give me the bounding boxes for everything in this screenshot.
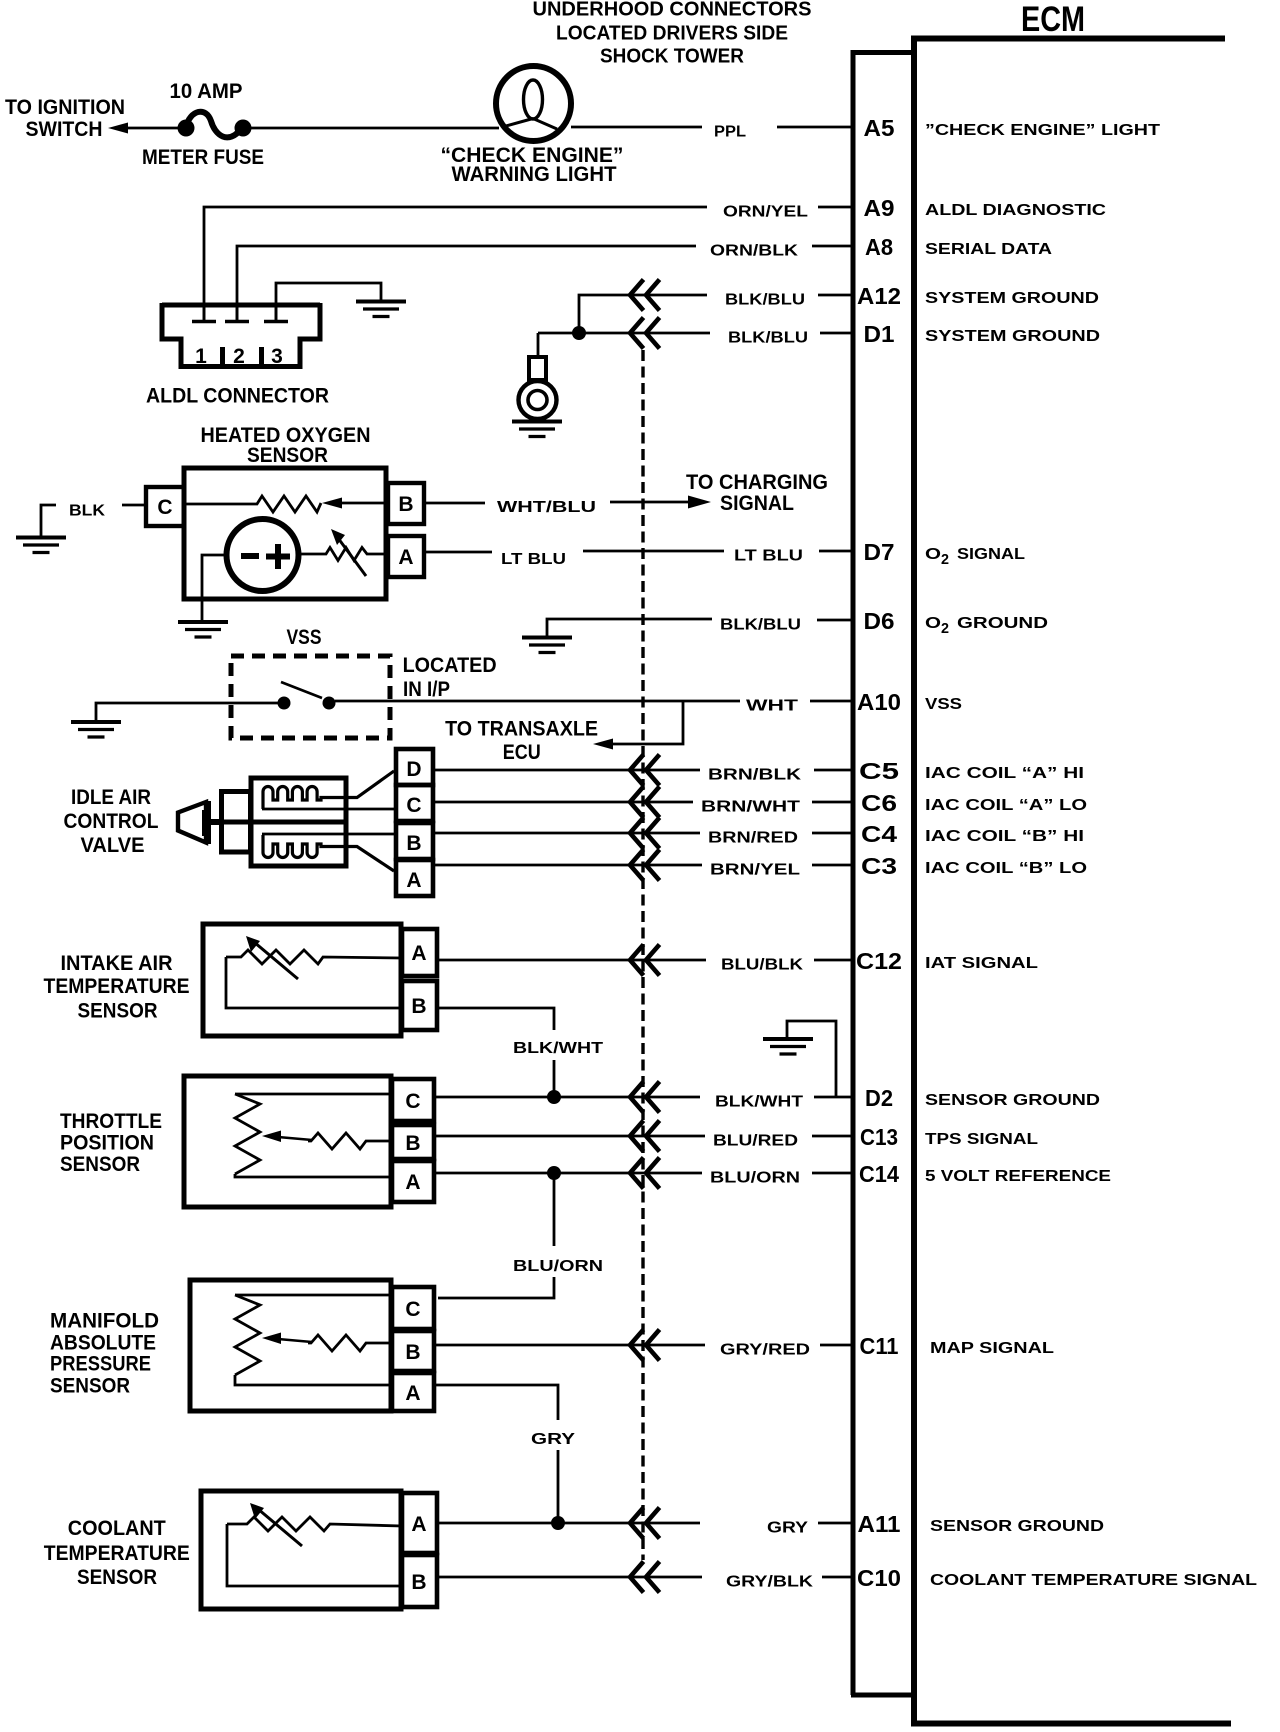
wire: HO2S pin A (LT BLU) left segment <box>424 551 492 554</box>
ECM box outline <box>911 36 1231 1724</box>
IAC pin C box <box>396 785 433 821</box>
heater resistor inside HO2S <box>184 496 321 512</box>
wire with arrow to charging signal <box>610 496 711 509</box>
svg-text:SHOCK TOWER: SHOCK TOWER <box>600 46 745 68</box>
svg-text:BRN/BLK: BRN/BLK <box>708 767 802 784</box>
connector chevrons on BLU/ORN wire at boundary <box>630 1158 660 1189</box>
svg-text:COOLANT TEMPERATURE SIGNAL: COOLANT TEMPERATURE SIGNAL <box>930 1572 1257 1589</box>
IAC coil B winding <box>263 835 394 871</box>
svg-text:TO CHARGING: TO CHARGING <box>686 471 828 494</box>
svg-text:2: 2 <box>941 620 949 637</box>
wire stub to pin D1 <box>820 332 852 335</box>
wire: warning light to pin A5 (PPL) <box>571 126 702 129</box>
caption: coolant temperature sensor <box>44 1517 190 1589</box>
battery symbol (sensor cell) <box>227 519 299 591</box>
svg-text:LT BLU: LT BLU <box>734 548 803 565</box>
svg-text:ORN/BLK: ORN/BLK <box>710 243 799 260</box>
wire: VSS to A10 (WHT) <box>335 700 740 703</box>
svg-text:VALVE: VALVE <box>81 834 145 857</box>
svg-text:A12: A12 <box>857 283 901 309</box>
wire: ground to VSS switch <box>96 703 278 721</box>
VSS switch contacts <box>278 697 291 710</box>
ground: HO2S case <box>178 622 228 637</box>
svg-text:LT BLU: LT BLU <box>501 551 566 568</box>
wire: IAC coil B hi to pin B <box>262 833 396 836</box>
svg-text:COOLANT: COOLANT <box>68 1517 166 1540</box>
svg-text:WHT/BLU: WHT/BLU <box>497 499 596 516</box>
svg-text:ALDL DIAGNOSTIC: ALDL DIAGNOSTIC <box>925 202 1107 219</box>
svg-text:SENSOR: SENSOR <box>77 1566 157 1589</box>
connector chevrons on BLK/BLU wire at boundary <box>630 318 660 349</box>
caption: underhood connectors note <box>533 0 812 68</box>
junction: A12/D1 ground splice <box>572 326 586 340</box>
IAC pin D box <box>396 749 433 785</box>
wire: pot bottom to pin A <box>235 1174 392 1177</box>
wire stub to pin D2 <box>814 1096 852 1099</box>
svg-text:IN I/P: IN I/P <box>403 678 450 701</box>
svg-text:MAP SIGNAL: MAP SIGNAL <box>930 1340 1054 1357</box>
CTS pin A box <box>402 1493 437 1553</box>
connector chevrons on BLK/BLU wire at boundary <box>630 280 660 311</box>
heated oxygen sensor body <box>184 468 386 599</box>
svg-text:SENSOR: SENSOR <box>247 444 328 467</box>
svg-text:TO TRANSAXLE: TO TRANSAXLE <box>445 718 598 741</box>
svg-text:A9: A9 <box>864 195 895 221</box>
svg-text:ECU: ECU <box>503 741 541 764</box>
IAC pin A box <box>396 860 433 896</box>
fuse F1 METER FUSE <box>178 112 252 138</box>
wire stub to pin D6 <box>817 619 852 622</box>
svg-text:B: B <box>405 1341 420 1364</box>
svg-text:BLK/BLU: BLK/BLU <box>728 330 808 347</box>
wire stub to pin C14 <box>812 1172 852 1175</box>
svg-text:B: B <box>406 832 421 855</box>
TPS pin A box <box>392 1161 434 1202</box>
svg-text:GRY: GRY <box>767 1520 808 1537</box>
svg-text:IAC COIL “A” LO: IAC COIL “A” LO <box>925 797 1087 814</box>
IAT pin B box <box>402 981 437 1030</box>
wire: IAC B to C4 (BRN/RED) <box>433 832 700 835</box>
wire BLK from pin C <box>122 504 146 507</box>
ring terminal ground lug <box>519 357 557 419</box>
wire: IAC A to C3 (BRN/YEL) <box>433 864 702 867</box>
svg-text:O: O <box>925 546 941 563</box>
svg-text:BLU/BLK: BLU/BLK <box>721 957 804 974</box>
caption: idle air control valve <box>64 786 159 857</box>
svg-text:C4: C4 <box>861 821 897 847</box>
svg-text:D7: D7 <box>864 539 895 565</box>
junction: 5V reference splice on C14 wire <box>547 1166 561 1180</box>
svg-text:D1: D1 <box>864 321 895 347</box>
wire: pot top to pin C <box>235 1093 392 1096</box>
wire stub to pin C5 <box>814 769 852 772</box>
svg-text:ORN/YEL: ORN/YEL <box>723 204 808 221</box>
svg-text:PRESSURE: PRESSURE <box>50 1353 151 1376</box>
wire: IAC coil A hi to pin D <box>262 808 396 811</box>
CTS thermistor arrow <box>250 1503 302 1546</box>
svg-text:BLK/WHT: BLK/WHT <box>513 1040 603 1057</box>
wire: A12 system ground (BLK/BLU) <box>579 295 707 333</box>
svg-text:A: A <box>411 1513 426 1536</box>
svg-text:SENSOR: SENSOR <box>78 1000 158 1023</box>
svg-text:D6: D6 <box>864 608 895 634</box>
lamp: CHECK ENGINE warning light <box>496 66 571 141</box>
MAP pin C box <box>392 1287 434 1329</box>
svg-text:SENSOR: SENSOR <box>60 1153 140 1176</box>
svg-text:METER FUSE: METER FUSE <box>142 146 264 169</box>
variable resistor to pin A <box>299 548 388 561</box>
svg-text:GRY: GRY <box>531 1431 575 1448</box>
ground: ALDL <box>356 302 406 317</box>
wire: CTS A to A11 (GRY) <box>437 1522 700 1525</box>
svg-text:BLK: BLK <box>69 503 105 520</box>
svg-text:VSS: VSS <box>925 696 962 713</box>
svg-text:B: B <box>411 995 426 1018</box>
svg-text:SWITCH: SWITCH <box>26 118 103 141</box>
svg-text:THROTTLE: THROTTLE <box>60 1110 162 1133</box>
ALDL pin 1 terminal <box>192 307 216 322</box>
svg-text:1: 1 <box>195 345 207 368</box>
connector chevrons on GRY/RED wire at boundary <box>630 1330 660 1361</box>
CTS pin B box <box>402 1555 437 1607</box>
wire stub to pin C10 <box>822 1576 852 1579</box>
svg-text:TEMPERATURE: TEMPERATURE <box>44 1542 190 1565</box>
coolant temperature sensor body <box>201 1491 401 1609</box>
wire branch to transaxle ECU <box>609 701 683 744</box>
HO2S pin A box <box>388 536 424 577</box>
wire: BLK to ground <box>41 505 56 536</box>
wire stub to pin C3 <box>812 864 852 867</box>
svg-text:BLU/RED: BLU/RED <box>713 1133 798 1150</box>
svg-text:IAT SIGNAL: IAT SIGNAL <box>925 955 1038 972</box>
arrow on heater wire <box>322 498 342 509</box>
svg-text:C12: C12 <box>856 948 902 974</box>
svg-text:LOCATED: LOCATED <box>403 654 497 677</box>
dashed line: underhood connector boundary <box>641 350 644 1560</box>
MAP sensor body <box>190 1280 391 1411</box>
connector chevrons on BRN/BLK wire at boundary <box>630 755 660 786</box>
MAP pin A box <box>392 1373 434 1411</box>
wire: branch down to A11 splice <box>557 1450 560 1521</box>
svg-text:TEMPERATURE: TEMPERATURE <box>44 975 190 998</box>
MAP potentiometer resistor <box>235 1295 260 1375</box>
caption: TO IGNITION SWITCH <box>5 96 125 141</box>
wire: branch to MAP pin C <box>438 1277 554 1298</box>
wire: ALDL pin 1 to A9 (ORN/YEL) <box>204 207 707 320</box>
svg-text:BLK/BLU: BLK/BLU <box>725 292 805 309</box>
svg-text:WARNING LIGHT: WARNING LIGHT <box>452 163 617 186</box>
svg-text:BRN/WHT: BRN/WHT <box>701 799 800 816</box>
svg-text:C: C <box>405 1298 420 1321</box>
ALDL connector outline <box>162 303 320 367</box>
wire stub to pin D7 <box>819 550 852 553</box>
MAP wiper resistor and arrow <box>262 1333 392 1352</box>
wire: MAP pot bottom to pin A <box>235 1375 392 1385</box>
svg-text:UNDERHOOD CONNECTORS: UNDERHOOD CONNECTORS <box>533 0 812 21</box>
svg-text:A10: A10 <box>857 689 901 715</box>
HO2S pin B box <box>388 483 424 524</box>
IAC coil A winding <box>263 771 394 809</box>
ECM connector pin column <box>851 53 914 1696</box>
connector chevrons on GRY wire at boundary <box>630 1508 660 1539</box>
connector chevrons on GRY/BLK wire at boundary <box>630 1562 660 1593</box>
wire stub to pin A11 <box>818 1522 852 1525</box>
CTS thermistor <box>227 1517 402 1531</box>
arrow to transaxle ECU <box>593 739 613 750</box>
svg-text:C14: C14 <box>859 1161 899 1187</box>
svg-text:C3: C3 <box>861 853 897 879</box>
caption: TO TRANSAXLE ECU <box>445 718 598 765</box>
svg-text:B: B <box>398 493 413 516</box>
connector chevrons on BRN/YEL wire at boundary <box>630 850 660 881</box>
svg-text:2: 2 <box>941 551 949 568</box>
wire stub to pin C4 <box>812 832 852 835</box>
svg-text:PPL: PPL <box>714 124 746 141</box>
IAT pin A box <box>402 929 437 976</box>
wire stub to pin C6 <box>812 801 852 804</box>
IAC pin B box <box>396 823 433 859</box>
svg-text:SIGNAL: SIGNAL <box>720 492 794 515</box>
caption LOCATED IN I/P <box>403 654 497 701</box>
svg-text:C13: C13 <box>860 1124 898 1150</box>
wire: MAP A to sensor ground branch (GRY) <box>434 1385 558 1420</box>
TPS pin B box <box>392 1125 434 1159</box>
svg-text:A: A <box>398 546 413 569</box>
wire: branch down to D2 splice <box>553 1060 556 1095</box>
svg-text:2: 2 <box>233 345 245 368</box>
svg-text:A11: A11 <box>858 1511 901 1537</box>
MAP pin B box <box>392 1331 434 1371</box>
ground: ECM sensor ground reference <box>763 1039 813 1054</box>
ground: BLK wire <box>16 538 66 553</box>
caption: heated oxygen sensor <box>201 424 371 467</box>
wire stub to pin A8 <box>812 245 852 248</box>
IAT sensor body <box>203 924 401 1036</box>
wire: IAC D to C5 (BRN/BLK) <box>433 769 700 772</box>
wire stub to pin A12 <box>818 294 852 297</box>
wire: MAP B to C11 (GRY/RED) <box>434 1344 705 1347</box>
wire: CTS B to C10 (GRY/BLK) <box>437 1576 702 1579</box>
ALDL cell separators <box>223 347 262 366</box>
wire: CTS to pin B <box>227 1524 402 1586</box>
wire: ALDL pin 2 to A8 (ORN/BLK) <box>237 246 696 320</box>
svg-text:C: C <box>406 794 421 817</box>
svg-text:WHT: WHT <box>746 698 798 715</box>
wire stub to pin A5 <box>777 126 852 129</box>
svg-text:SYSTEM GROUND: SYSTEM GROUND <box>925 290 1099 307</box>
svg-text:LOCATED DRIVERS SIDE: LOCATED DRIVERS SIDE <box>556 23 788 45</box>
wire: LT BLU middle segment to D7 <box>583 550 724 553</box>
svg-text:BRN/YEL: BRN/YEL <box>710 862 800 879</box>
IAC valve stem <box>208 819 224 825</box>
wire: battery negative to case ground <box>202 555 227 620</box>
svg-text:C6: C6 <box>861 790 897 816</box>
svg-text:SERIAL DATA: SERIAL DATA <box>925 241 1053 258</box>
arrow across variable resistor <box>331 529 366 576</box>
VSS dashed box <box>231 656 390 738</box>
TPS wiper resistor and arrow <box>262 1131 392 1150</box>
svg-text:D2: D2 <box>865 1085 893 1111</box>
svg-text:TO IGNITION: TO IGNITION <box>5 96 125 119</box>
wire stub to pin A10 <box>810 700 852 703</box>
wire: ignition switch to meter fuse <box>124 127 180 130</box>
svg-text:O: O <box>925 615 941 632</box>
svg-text:IAC COIL “A” HI: IAC COIL “A” HI <box>925 765 1084 782</box>
svg-text:IDLE AIR: IDLE AIR <box>71 786 151 809</box>
wire stub to pin A9 <box>818 206 852 209</box>
caption: manifold absolute pressure sensor <box>50 1310 159 1398</box>
svg-text:BRN/RED: BRN/RED <box>708 830 798 847</box>
wire: TPS A to C14 (BLU/ORN) <box>434 1172 702 1175</box>
wire: TPS C to D2 (BLK/WHT) <box>434 1096 700 1099</box>
svg-text:B: B <box>405 1132 420 1155</box>
wire: TPS B to C13 (BLU/RED) <box>434 1135 705 1138</box>
wire: meter fuse to warning light <box>243 127 499 130</box>
IAT thermistor arrow <box>246 936 298 979</box>
IAT thermistor <box>226 950 402 964</box>
svg-text:C10: C10 <box>857 1565 901 1591</box>
svg-text:A: A <box>405 1382 420 1405</box>
arrow to ignition switch <box>108 123 128 134</box>
svg-text:TPS SIGNAL: TPS SIGNAL <box>925 1131 1038 1148</box>
svg-text:”CHECK ENGINE” LIGHT: ”CHECK ENGINE” LIGHT <box>925 122 1160 139</box>
svg-text:BLU/ORN: BLU/ORN <box>710 1170 800 1187</box>
svg-text:IAC COIL “B” HI: IAC COIL “B” HI <box>925 828 1084 845</box>
junction: sensor ground splice on A11 wire <box>551 1516 565 1530</box>
svg-text:5 VOLT REFERENCE: 5 VOLT REFERENCE <box>925 1168 1111 1185</box>
connector chevrons on BRN/RED wire at boundary <box>630 818 660 849</box>
TPS potentiometer resistor <box>235 1094 260 1174</box>
svg-text:GRY/RED: GRY/RED <box>720 1342 810 1359</box>
svg-text:SENSOR: SENSOR <box>50 1375 130 1398</box>
svg-text:A8: A8 <box>865 234 893 260</box>
svg-text:POSITION: POSITION <box>60 1132 154 1155</box>
VSS switch lever <box>281 682 322 698</box>
IAC valve coil housing <box>251 778 346 866</box>
caption: TO CHARGING SIGNAL <box>686 471 828 515</box>
IAC valve collar <box>222 792 251 853</box>
svg-text:ECM: ECM <box>1021 0 1085 39</box>
svg-text:INTAKE AIR: INTAKE AIR <box>61 952 173 975</box>
svg-text:C: C <box>157 496 172 519</box>
ground: VSS return <box>71 722 121 737</box>
svg-text:BLK/WHT: BLK/WHT <box>715 1094 803 1111</box>
ALDL pin 2 terminal <box>225 307 249 322</box>
svg-text:BLU/ORN: BLU/ORN <box>513 1258 603 1275</box>
connector chevrons on BLU/RED wire at boundary <box>630 1121 660 1152</box>
wire: MAP pot top to pin C <box>235 1294 392 1297</box>
svg-text:BLK/BLU: BLK/BLU <box>720 617 801 634</box>
wire: sensor ground jumper at D2 <box>787 1021 836 1097</box>
ground: ring terminal <box>512 422 562 437</box>
connector chevrons on BRN/WHT wire at boundary <box>630 787 660 818</box>
svg-text:SYSTEM GROUND: SYSTEM GROUND <box>925 328 1100 345</box>
connector chevrons on BLK/WHT wire at boundary <box>630 1082 660 1113</box>
svg-text:C11: C11 <box>860 1333 899 1359</box>
svg-text:SENSOR GROUND: SENSOR GROUND <box>930 1518 1104 1535</box>
svg-text:B: B <box>411 1571 426 1594</box>
svg-text:C: C <box>405 1090 420 1113</box>
svg-text:SIGNAL: SIGNAL <box>957 546 1025 563</box>
svg-text:D: D <box>406 758 421 781</box>
wire: ALDL pin 3 to ground <box>276 283 381 320</box>
svg-text:SENSOR GROUND: SENSOR GROUND <box>925 1092 1100 1109</box>
wire: splice down (BLU/ORN branch) <box>553 1173 556 1246</box>
ALDL pin 3 terminal <box>264 307 288 322</box>
svg-text:A5: A5 <box>864 115 895 141</box>
svg-text:IAC COIL “B” LO: IAC COIL “B” LO <box>925 860 1087 877</box>
wire: splice to ring terminal <box>537 333 540 358</box>
wire: IAT B to sensor ground splice (BLK/WHT) <box>437 1008 554 1030</box>
wire stub to pin C12 <box>814 959 852 962</box>
wire: D1 system ground (BLK/BLU) <box>538 332 710 335</box>
TPS pin C box <box>392 1079 434 1121</box>
wire stub to pin C13 <box>812 1135 852 1138</box>
svg-text:GRY/BLK: GRY/BLK <box>726 1574 814 1591</box>
svg-text:MANIFOLD: MANIFOLD <box>50 1310 159 1333</box>
svg-text:ABSOLUTE: ABSOLUTE <box>50 1332 156 1355</box>
svg-text:3: 3 <box>271 345 283 368</box>
svg-text:C5: C5 <box>859 758 899 784</box>
svg-text:10 AMP: 10 AMP <box>170 80 243 103</box>
connector chevrons on BLU/BLK wire at boundary <box>630 945 660 976</box>
wire: IAT A to C12 (BLU/BLK) <box>437 959 706 962</box>
svg-text:VSS: VSS <box>287 626 322 649</box>
svg-text:CONTROL: CONTROL <box>64 810 159 833</box>
svg-text:A: A <box>406 869 421 892</box>
wire: IAC C to C6 (BRN/WHT) <box>433 801 693 804</box>
HO2S pin C box <box>146 487 184 526</box>
ECM function label for pin D7: O2 SIGNAL <box>925 546 1025 568</box>
ground: O2 sensor ground <box>522 638 572 653</box>
junction: sensor ground splice on D2 wire <box>547 1090 561 1104</box>
svg-text:ALDL CONNECTOR: ALDL CONNECTOR <box>146 385 329 408</box>
svg-text:A: A <box>411 942 426 965</box>
wire stub to pin C11 <box>820 1344 852 1347</box>
wire: IAT to pin B <box>226 957 402 1008</box>
TPS body <box>184 1076 391 1207</box>
svg-text:A: A <box>405 1171 420 1194</box>
wire: O2 ground (BLK/BLU) to D6 <box>547 619 712 636</box>
caption: check engine warning light <box>441 144 624 186</box>
wire: HO2S pin B to charging signal (WHT/BLU) <box>424 502 485 505</box>
caption: throttle position sensor <box>60 1110 162 1176</box>
caption: intake air temperature sensor <box>44 952 190 1023</box>
svg-text:GROUND: GROUND <box>957 615 1048 632</box>
IAC valve pintle cone <box>178 801 208 844</box>
ECM function label for pin D6: O2 GROUND <box>925 615 1048 637</box>
